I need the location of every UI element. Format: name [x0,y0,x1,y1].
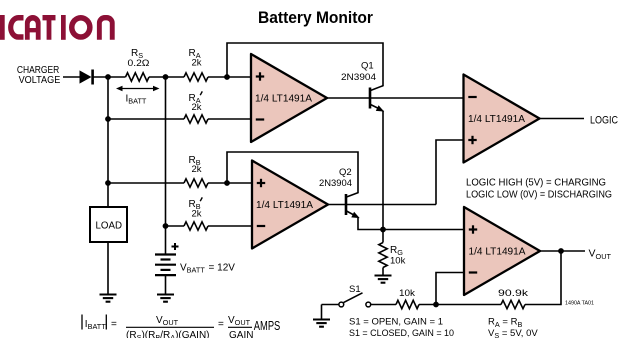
svg-text:2k: 2k [192,102,202,113]
resistor RA [184,73,208,81]
svg-text:VOLTAGE: VOLTAGE [19,75,61,86]
LOAD box [90,207,127,242]
wire RA to op-amp U1 + input [208,76,251,78]
svg-text:Q2: Q2 [339,167,352,178]
svg-text:=: = [218,319,224,330]
svg-text:LOGIC: LOGIC [590,115,618,127]
svg-text:1/4 LT1491A: 1/4 LT1491A [255,93,312,105]
switch S1 [366,302,371,307]
svg-text:=: = [111,319,117,330]
op-amp U3 1/4 LT1491A (logic) [464,75,540,163]
svg-text:1/4 LT1491A: 1/4 LT1491A [256,199,313,211]
resistor RB [184,179,208,187]
svg-text:LOGIC HIGH (5V) = CHARGING: LOGIC HIGH (5V) = CHARGING [466,176,606,188]
svg-text:10k: 10k [399,288,415,299]
svg-text:1/4 LT1491A: 1/4 LT1491A [468,113,525,125]
svg-text:AMPS: AMPS [254,318,281,333]
svg-text:2k: 2k [192,209,202,220]
op2 output wire [328,204,436,206]
resistor RB' [184,222,208,230]
svg-text:GAIN: GAIN [229,330,253,338]
svg-text:S1 = CLOSED, GAIN = 10: S1 = CLOSED, GAIN = 10 [349,328,454,338]
RB row [108,182,184,184]
left vertical bus x=108 [107,77,109,207]
op4 output to VOUT [540,250,585,252]
op-amp U1 1/4 LT1491A [251,54,327,142]
op3 output wire [540,118,585,120]
svg-text:1/4 LT1491A: 1/4 LT1491A [469,246,526,258]
node: feedback tap op1 [224,74,230,80]
resistor RA' [184,115,208,123]
node: RS-RA junction [163,74,169,80]
ground below RG [375,274,392,276]
current formula [82,315,281,338]
svg-text:S1 = OPEN, GAIN = 1: S1 = OPEN, GAIN = 1 [349,317,443,328]
svg-text:0.2Ω: 0.2Ω [128,58,150,69]
ground below LOAD [100,293,117,295]
feedback: vout down and left [525,251,561,305]
node: emitter junction [380,227,386,233]
svg-text:LOGIC LOW (0V) = DISCHARGING: LOGIC LOW (0V) = DISCHARGING [466,189,612,201]
wire charger to diode [63,76,80,78]
svg-text:2N3904: 2N3904 [341,72,376,83]
diode D1 [80,70,92,83]
RB' row [166,225,185,227]
resistor 10k (gain) [396,300,419,308]
ground below S1 [313,318,330,320]
resistor RG [382,230,384,243]
wire RA' row [108,118,184,120]
svg-text:2k: 2k [192,164,202,175]
svg-text:Q1: Q1 [361,61,374,72]
op-amp U2 1/4 LT1491A [252,161,328,249]
feedback loop op1: vertical + top rail + to Q1 collector [227,43,383,86]
svg-text:10k: 10k [390,256,406,267]
wire RS to RA [149,76,184,78]
resistor RS [126,73,150,81]
svg-text:90.9k: 90.9k [498,288,528,299]
ground below battery [157,293,174,295]
transistor Q2 2N3904 [345,194,348,215]
svg-text:Battery Monitor: Battery Monitor [258,9,374,27]
svg-text:LOAD: LOAD [96,221,123,232]
op4 - input branch [436,273,464,305]
node: diode-RS junction [105,74,111,80]
feedback loop op2 [227,152,358,193]
vertical bus x=165.5 to battery [165,77,167,255]
resistor 90.9k [501,300,525,308]
op-amp U4 1/4 LT1491A (vout) [464,207,540,295]
svg-text:2k: 2k [192,58,202,69]
wire op2 out up to op3 + input [436,140,464,205]
svg-text:1490A TA01: 1490A TA01 [565,300,594,306]
transistor Q1 2N3904 [369,88,372,109]
svg-text:S1: S1 [349,284,361,295]
battery VBATT [155,253,176,255]
op1 output wire to Q1 base / op3 [327,97,464,99]
IBATT current arrow [119,88,157,90]
svg-text:2N3904: 2N3904 [319,178,352,189]
header TYPICAL APPLICATION (cropped: ICATION) [0,15,115,40]
battery plus sign [172,246,179,248]
